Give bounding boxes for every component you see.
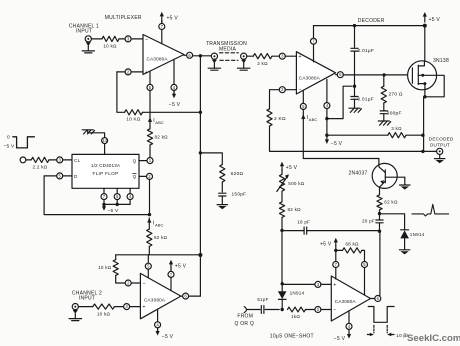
junction rail to +5V arrow (423, 24, 427, 28)
wire pin5 decoder stub (302, 91, 304, 104)
label FROM Q OR Qbar (235, 314, 257, 328)
svg-text:−5 V: −5 V (4, 144, 16, 150)
svg-text:Q: Q (133, 158, 137, 163)
svg-text:−: − (145, 37, 148, 43)
svg-text:2N4037: 2N4037 (349, 171, 368, 177)
pin 7 of U1 (159, 24, 165, 30)
terminal channel 2 input (72, 304, 78, 310)
svg-text:−5 V: −5 V (334, 336, 346, 342)
svg-text:270 Ω: 270 Ω (389, 91, 403, 97)
svg-text:FROM: FROM (237, 314, 253, 320)
pin 6 of U3 (183, 293, 189, 299)
wire U1 pin2 feedback loop left and down (117, 71, 125, 73)
wire pin4 tap to bypass node (327, 86, 352, 118)
wire base to ground (404, 177, 406, 184)
wire to pin 7 one-shot (335, 250, 337, 261)
pin 6 of U5 (375, 296, 381, 302)
svg-text:INPUT: INPUT (79, 296, 95, 302)
wire pin5 to transistor collector (303, 119, 379, 164)
wire 620 to 150pF (221, 182, 223, 192)
pin 4 of U5 (346, 323, 352, 329)
transistor Q1 3N138 MOSFET (408, 61, 437, 97)
wire U1 output to pin 6 (184, 54, 187, 56)
ground above flip flop (82, 130, 94, 134)
svg-text:62 kΩ: 62 kΩ (384, 199, 398, 204)
wire FF supply bus -5V (103, 200, 105, 205)
svg-text:10 kΩ: 10 kΩ (98, 265, 112, 270)
svg-text:300pF: 300pF (387, 111, 402, 117)
wire pin2 into U3 (131, 282, 140, 284)
svg-text:82 kΩ: 82 kΩ (154, 235, 168, 240)
wire pin14 to box (104, 144, 106, 155)
ground under lower bypass cap (349, 108, 361, 112)
pin 3 of U3 (124, 304, 130, 310)
wire pin5 to IABC arrow (149, 90, 151, 122)
capacitor 0.01uF upper bypass (351, 48, 358, 51)
wire ch1 input to R1 (91, 38, 102, 40)
wire one-shot output up to 20pF node (379, 231, 381, 296)
wire +5V to pin7 ch2 (170, 268, 172, 272)
wire Qbar feedback to D (44, 176, 149, 215)
terminal clock input (20, 157, 26, 163)
wire cap to -5V node crossing output (354, 51, 356, 86)
svg-text:−: − (142, 281, 145, 287)
resistor 10k feedback ch2 (113, 260, 118, 276)
resistor 270 ohm (383, 75, 385, 86)
wire +5V to pin7 circle (161, 21, 163, 24)
ground at 2N4037 base (400, 185, 410, 190)
svg-text:Q: Q (133, 174, 137, 179)
wire pin5 to triangle (147, 269, 149, 278)
wire +5V to pot (281, 170, 283, 175)
junction 20pF 18pF one-shot node (378, 230, 381, 233)
pin 3 of U5 (315, 281, 321, 287)
junction timing node (280, 229, 283, 232)
ground under channel 2 terminal (69, 310, 81, 321)
wire pin3 into U4 (285, 55, 296, 57)
wire pin3 to FF box (63, 159, 72, 161)
resistor 68k (336, 249, 343, 251)
capacitor 51pF (261, 306, 264, 314)
ground under 300pF (378, 121, 390, 125)
resistor 3k source load (388, 133, 406, 138)
wire source down to decoded output (423, 97, 425, 152)
wire 2.2k to pin 3 of flip flop (49, 159, 57, 161)
pin 1 Q of flip flop (147, 158, 153, 164)
potentiometer 500k (279, 174, 284, 191)
svg-text:51pF: 51pF (257, 297, 268, 302)
svg-text:+: + (145, 70, 148, 76)
wire 2K down and right to decoded output (270, 126, 423, 151)
pin 4 of U3 (155, 322, 161, 328)
pulse width arrow right (391, 334, 395, 336)
wire node to pin 3 one-shot (282, 283, 315, 285)
svg-text:10μS ONE−SHOT: 10μS ONE−SHOT (270, 333, 314, 339)
wire 150pF to ground (221, 196, 223, 204)
svg-text:CL: CL (74, 158, 81, 163)
resistor 2K decoder feedback (267, 109, 272, 126)
label DECODED OUTPUT (429, 136, 454, 147)
junction pin4 bypass tap (325, 117, 328, 120)
junction +5V 68k (334, 249, 337, 252)
capacitor 20pF (379, 214, 381, 220)
svg-text:1N914: 1N914 (290, 291, 305, 296)
svg-text:14: 14 (102, 138, 107, 143)
wire 1k to pin 2 (306, 309, 315, 311)
svg-text:20 pF: 20 pF (362, 218, 375, 223)
IABC arrow ch2 (147, 218, 151, 223)
wire 10k to pin 2 ch2 (116, 275, 126, 283)
svg-text:82 kΩ: 82 kΩ (288, 207, 302, 212)
-5V arrow U3 (157, 328, 159, 330)
svg-text:+5 V: +5 V (320, 241, 332, 247)
pin 3 of U4 (279, 53, 285, 59)
junction rail to bypass cap (353, 24, 356, 27)
wire pin5 to box (63, 175, 72, 177)
capacitor 0.01uF lower bypass (351, 97, 358, 100)
svg-text:−: − (333, 308, 336, 314)
wire feedback resistor to output bus (143, 111, 201, 113)
junction -5V bypass node (353, 85, 356, 88)
wire U1 pin4 down (173, 60, 175, 85)
wire 62k to node (379, 210, 381, 214)
wire feedback row ch2 (116, 254, 201, 256)
resistor R 10k channel 1 (102, 36, 119, 41)
junction bus to load (199, 151, 202, 154)
terminal channel 1 input (85, 36, 91, 42)
wire 2k to pin 3 decoder (272, 55, 279, 57)
wire to decoded output terminal (423, 150, 437, 152)
junction source node (423, 95, 426, 98)
svg-text:ABC: ABC (155, 222, 164, 227)
wire decoder output to MOSFET gate (343, 74, 412, 76)
ground under media terminal right (238, 60, 250, 71)
wire 82k to FF pin1 (149, 145, 151, 158)
svg-text:1kΩ: 1kΩ (291, 314, 300, 319)
diode 1N914 clamp cathode bar (401, 229, 409, 231)
ground under 150pF (217, 205, 227, 210)
svg-text:CA3080A: CA3080A (299, 75, 321, 80)
pulse width markers (373, 325, 375, 332)
wire to pin 3 ch2 (115, 306, 124, 308)
wire FF Qbar to pin 2 (139, 175, 147, 177)
svg-text:SeekIC.com: SeekIC.com (407, 333, 460, 344)
svg-text:10 KΩ: 10 KΩ (126, 117, 140, 122)
wire diode to pin2 row (281, 299, 283, 309)
wire -5V node to 3k resistor (327, 134, 388, 136)
resistor 10k channel 2 (93, 304, 115, 309)
wire pin3 to U1 (131, 38, 143, 40)
pin 5 of U1 (147, 84, 153, 90)
pin 2 of U1 (125, 69, 131, 75)
pin 7 of flip flop (101, 194, 107, 200)
svg-text:620Ω: 620Ω (231, 171, 244, 177)
svg-text:FLIP FLOP: FLIP FLOP (92, 171, 118, 176)
svg-text:Q OR Q: Q OR Q (235, 321, 255, 327)
svg-text:−5 V: −5 V (331, 141, 343, 147)
wire 82k down to feedback row (148, 247, 150, 255)
+5V arrow pot (280, 162, 284, 171)
wire 51pF to node (265, 309, 279, 311)
wire mux output bus vertical (199, 56, 201, 296)
wire pin7 into U1 (161, 30, 163, 44)
watermark SeekIC.com (403, 332, 460, 344)
label CHANNEL 1 INPUT (69, 23, 99, 34)
wire ch2 input to resistor (78, 306, 92, 308)
+5V supply arrow U1 pin7 (160, 12, 164, 23)
junction FF pin6 bus (116, 203, 119, 206)
capacitor 18pF with wires (282, 230, 304, 232)
wire U4 output to pin 6 (336, 74, 338, 76)
ground under 1N914 clamp (399, 250, 409, 255)
svg-text:OUTPUT: OUTPUT (430, 142, 450, 147)
wire U1 out to transmission terminal (193, 55, 212, 57)
label TRANSMISSION MEDIA (206, 41, 247, 52)
wire pin4 decoder stub (326, 79, 328, 102)
IABC arrow decoder (302, 109, 304, 119)
pin 6 of flip flop (114, 194, 120, 200)
svg-text:+: + (142, 305, 145, 311)
diode 1N914 clamp (400, 230, 409, 238)
svg-text:+5 V: +5 V (175, 263, 187, 269)
svg-text:+5 V: +5 V (429, 17, 441, 23)
pin 5 of U4 (300, 103, 306, 109)
svg-text:DECODED: DECODED (429, 136, 454, 141)
pin 3 CL of flip flop (57, 157, 63, 163)
svg-text:3 kΩ: 3 kΩ (391, 126, 402, 131)
-5V arrow flip flop (102, 204, 106, 211)
svg-text:10 kΩ: 10 kΩ (97, 311, 111, 316)
wire pin4 to -5V node (326, 109, 328, 136)
svg-text:2 KΩ: 2 KΩ (274, 116, 286, 122)
svg-text:68 kΩ: 68 kΩ (345, 241, 359, 246)
one-shot output pulse waveform (368, 307, 394, 323)
op-amp U3 CA3080A channel 2 (140, 273, 181, 318)
pin 4 of flip flop (127, 194, 133, 200)
svg-text:+: + (333, 282, 336, 288)
pin 2 of U5 (315, 307, 321, 313)
label CHANNEL 2 INPUT (72, 290, 102, 301)
pin 7 of U5 (333, 262, 339, 268)
wire FF pin7 stub (103, 188, 105, 193)
input connector from Q (244, 307, 246, 313)
pin 5 of U5 (362, 262, 368, 268)
wire pin5 to triangle (364, 268, 366, 296)
svg-text:CA3080A: CA3080A (147, 56, 169, 61)
svg-text:MULTIPLEXER: MULTIPLEXER (105, 15, 142, 21)
wire pot to 82k (281, 191, 283, 202)
-5V arrow one-shot (348, 329, 350, 332)
svg-text:DECODER: DECODER (358, 18, 385, 24)
wire pin7 decoder up (313, 26, 315, 39)
+5V arrow one-shot (334, 238, 338, 246)
spike waveform icon (412, 204, 449, 216)
wire R1 to pin 3 (119, 38, 125, 40)
pin 2 of U4 (279, 87, 285, 93)
-5V arrow U1 (173, 90, 175, 93)
label IABC decoder (307, 115, 318, 122)
wire FF pin6 stub (116, 188, 118, 193)
wire pin7 into U4 (313, 44, 315, 62)
svg-text:+5 V: +5 V (167, 15, 179, 21)
wire timing node down to pin3 node (281, 230, 283, 283)
wire +5V rail decoder (314, 25, 425, 27)
svg-text:3N138: 3N138 (433, 58, 449, 64)
wire U3 output to bus (189, 295, 201, 297)
svg-text:MEDIA: MEDIA (219, 46, 237, 52)
op-amp U1 CA3080A multiplexer ch1 (143, 35, 184, 76)
svg-text:−5 V: −5 V (162, 334, 174, 340)
resistor 10K feedback mux (125, 110, 143, 115)
junction feedback on bus (199, 111, 202, 114)
junction diode 51pF 1k node (281, 308, 284, 311)
svg-text:+: + (298, 54, 301, 60)
svg-text:ABC: ABC (309, 117, 318, 122)
svg-text:−5 V: −5 V (108, 208, 120, 214)
svg-text:0.01μF: 0.01μF (358, 48, 375, 54)
svg-text:−: − (298, 88, 301, 94)
pin 6 of U4 (337, 72, 343, 78)
pin 5 of U3 (145, 263, 151, 269)
svg-text:+5 V: +5 V (286, 165, 298, 171)
resistor 2.2k clock (31, 157, 49, 162)
ground under decoded output terminal (439, 155, 441, 159)
+5V arrow decoder rail (423, 12, 427, 22)
capacitor 150pF load (219, 193, 226, 196)
label IABC ch2 (153, 221, 164, 228)
wire U3 output to pin 6 (181, 295, 183, 297)
wire node to 1N914 clamp (380, 214, 405, 230)
svg-text:18 pF: 18 pF (297, 220, 310, 225)
wire pin4 one-shot stub (348, 311, 350, 324)
op-amp U4 CA3080A decoder (296, 52, 335, 94)
terminal transmission media right (241, 53, 247, 59)
wire MOSFET drain to +5V rail (424, 26, 426, 61)
svg-text:150pF: 150pF (232, 192, 247, 198)
wire 1N914 to ground (404, 238, 406, 249)
+5V arrow U3 (169, 260, 173, 268)
wire bus to 620 ohm (200, 153, 222, 165)
wire pin7 into U5 (335, 268, 337, 280)
node mux output bus junction (199, 54, 202, 57)
wire 300pF to ground (383, 114, 385, 121)
diode 1N914 one-shot (281, 284, 283, 291)
wire pin7 into U3 (170, 277, 172, 290)
wire U5 output to pin 6 (371, 298, 375, 300)
op-amp U5 CA3080A one-shot (331, 276, 370, 321)
wire 10k feedback down (115, 255, 117, 260)
svg-text:CA3080A: CA3080A (335, 299, 357, 304)
wire U1 pin5 down (149, 71, 151, 84)
resistor 62k (377, 195, 382, 210)
wire Qbar down to IABC node (149, 179, 151, 214)
resistor 2k decoder input (253, 54, 272, 59)
resistor 620 ohm load (220, 165, 225, 183)
wire FF Q to pin 1 (139, 160, 147, 162)
wire 82k to node (281, 217, 283, 230)
svg-text:0.01μF: 0.01μF (357, 97, 374, 103)
wire connector to 51pF (247, 309, 260, 311)
wire to lower 0.01uF cap (354, 86, 356, 96)
ground under channel 1 terminal (82, 42, 94, 53)
pin 5 D of flip flop (57, 173, 63, 179)
svg-text:500 kΩ: 500 kΩ (288, 181, 304, 186)
wire +5V to junction (335, 246, 337, 251)
svg-text:−5 V: −5 V (169, 102, 181, 108)
svg-text:82 kΩ: 82 kΩ (155, 135, 169, 140)
pin 2 of U3 (125, 280, 131, 286)
resistor 1k one-shot (288, 307, 306, 312)
junction diode pin3 node (281, 282, 284, 285)
junction feedback row on bus (198, 253, 202, 257)
svg-text:D: D (74, 174, 78, 179)
pin 14 of flip flop (102, 138, 108, 144)
pin 4 of U1 (171, 84, 177, 90)
junction 3k on output line (421, 134, 424, 137)
flip flop U2 1/2 CD4013A box (72, 154, 139, 188)
svg-text:10 kΩ: 10 kΩ (103, 44, 117, 49)
dashed transmission media lines (220, 52, 239, 54)
resistor 82k timing (279, 202, 284, 218)
svg-text:1N914: 1N914 (410, 232, 425, 237)
pin 7 of U4 (311, 38, 317, 44)
resistor 82k ch2 IABC (147, 229, 152, 247)
wire substrate loop to source (425, 75, 444, 97)
wire pin2 into U1 (131, 71, 143, 73)
resistor 82k mux IABC (147, 129, 152, 145)
svg-text:1/2 CD4013A: 1/2 CD4013A (91, 163, 121, 168)
pin 6 of U1 (187, 52, 193, 58)
label IABC mux (153, 118, 164, 125)
wire to 82k (149, 122, 151, 129)
junction output to 270 (382, 73, 385, 76)
capacitor 300pF (380, 111, 387, 114)
wire pin4 stub ch2 (157, 309, 159, 321)
svg-text:2 kΩ: 2 kΩ (257, 61, 268, 66)
terminal transmission media left (211, 53, 217, 59)
wire pin2 into U4 (285, 89, 296, 91)
transistor Q2 2N4037 (372, 163, 405, 188)
wire 3k to decoded output line (406, 134, 423, 136)
pin 2 Qbar of flip flop (147, 173, 153, 179)
svg-text:2.2 kΩ: 2.2 kΩ (33, 164, 48, 169)
wire ground to FF pin 14 (88, 130, 105, 138)
clock waveform icon 0/-5V (13, 137, 35, 148)
svg-text:CA3080A: CA3080A (144, 297, 166, 302)
wire clock terminal to R 2.2k (26, 159, 31, 161)
-5V arrow decoder (325, 136, 329, 144)
junction 62k 20pF diode node (378, 212, 381, 215)
pin 4 of U4 (324, 103, 330, 109)
ground under media terminal left (208, 60, 220, 71)
svg-text:ABC: ABC (155, 120, 164, 125)
pin 7 of U3 (168, 271, 174, 277)
pin 3 of U1 (125, 36, 131, 42)
wire pin3 into U3 (130, 306, 141, 308)
svg-text:0: 0 (7, 135, 10, 141)
wire rail to 0.01uF cap (354, 26, 356, 48)
wire pin2 decoder loop (270, 90, 280, 109)
wire emitter to 62k (379, 187, 381, 195)
junction pin4 to 3k line (325, 134, 328, 137)
terminal decoded output (437, 148, 443, 154)
junction feedback to output node (421, 150, 424, 153)
pulse width arrow left (367, 334, 371, 336)
wire media to 2k (247, 55, 253, 57)
IABC arrow mux (148, 117, 152, 122)
wire lower cap to ground (354, 99, 356, 108)
svg-text:INPUT: INPUT (76, 29, 92, 35)
